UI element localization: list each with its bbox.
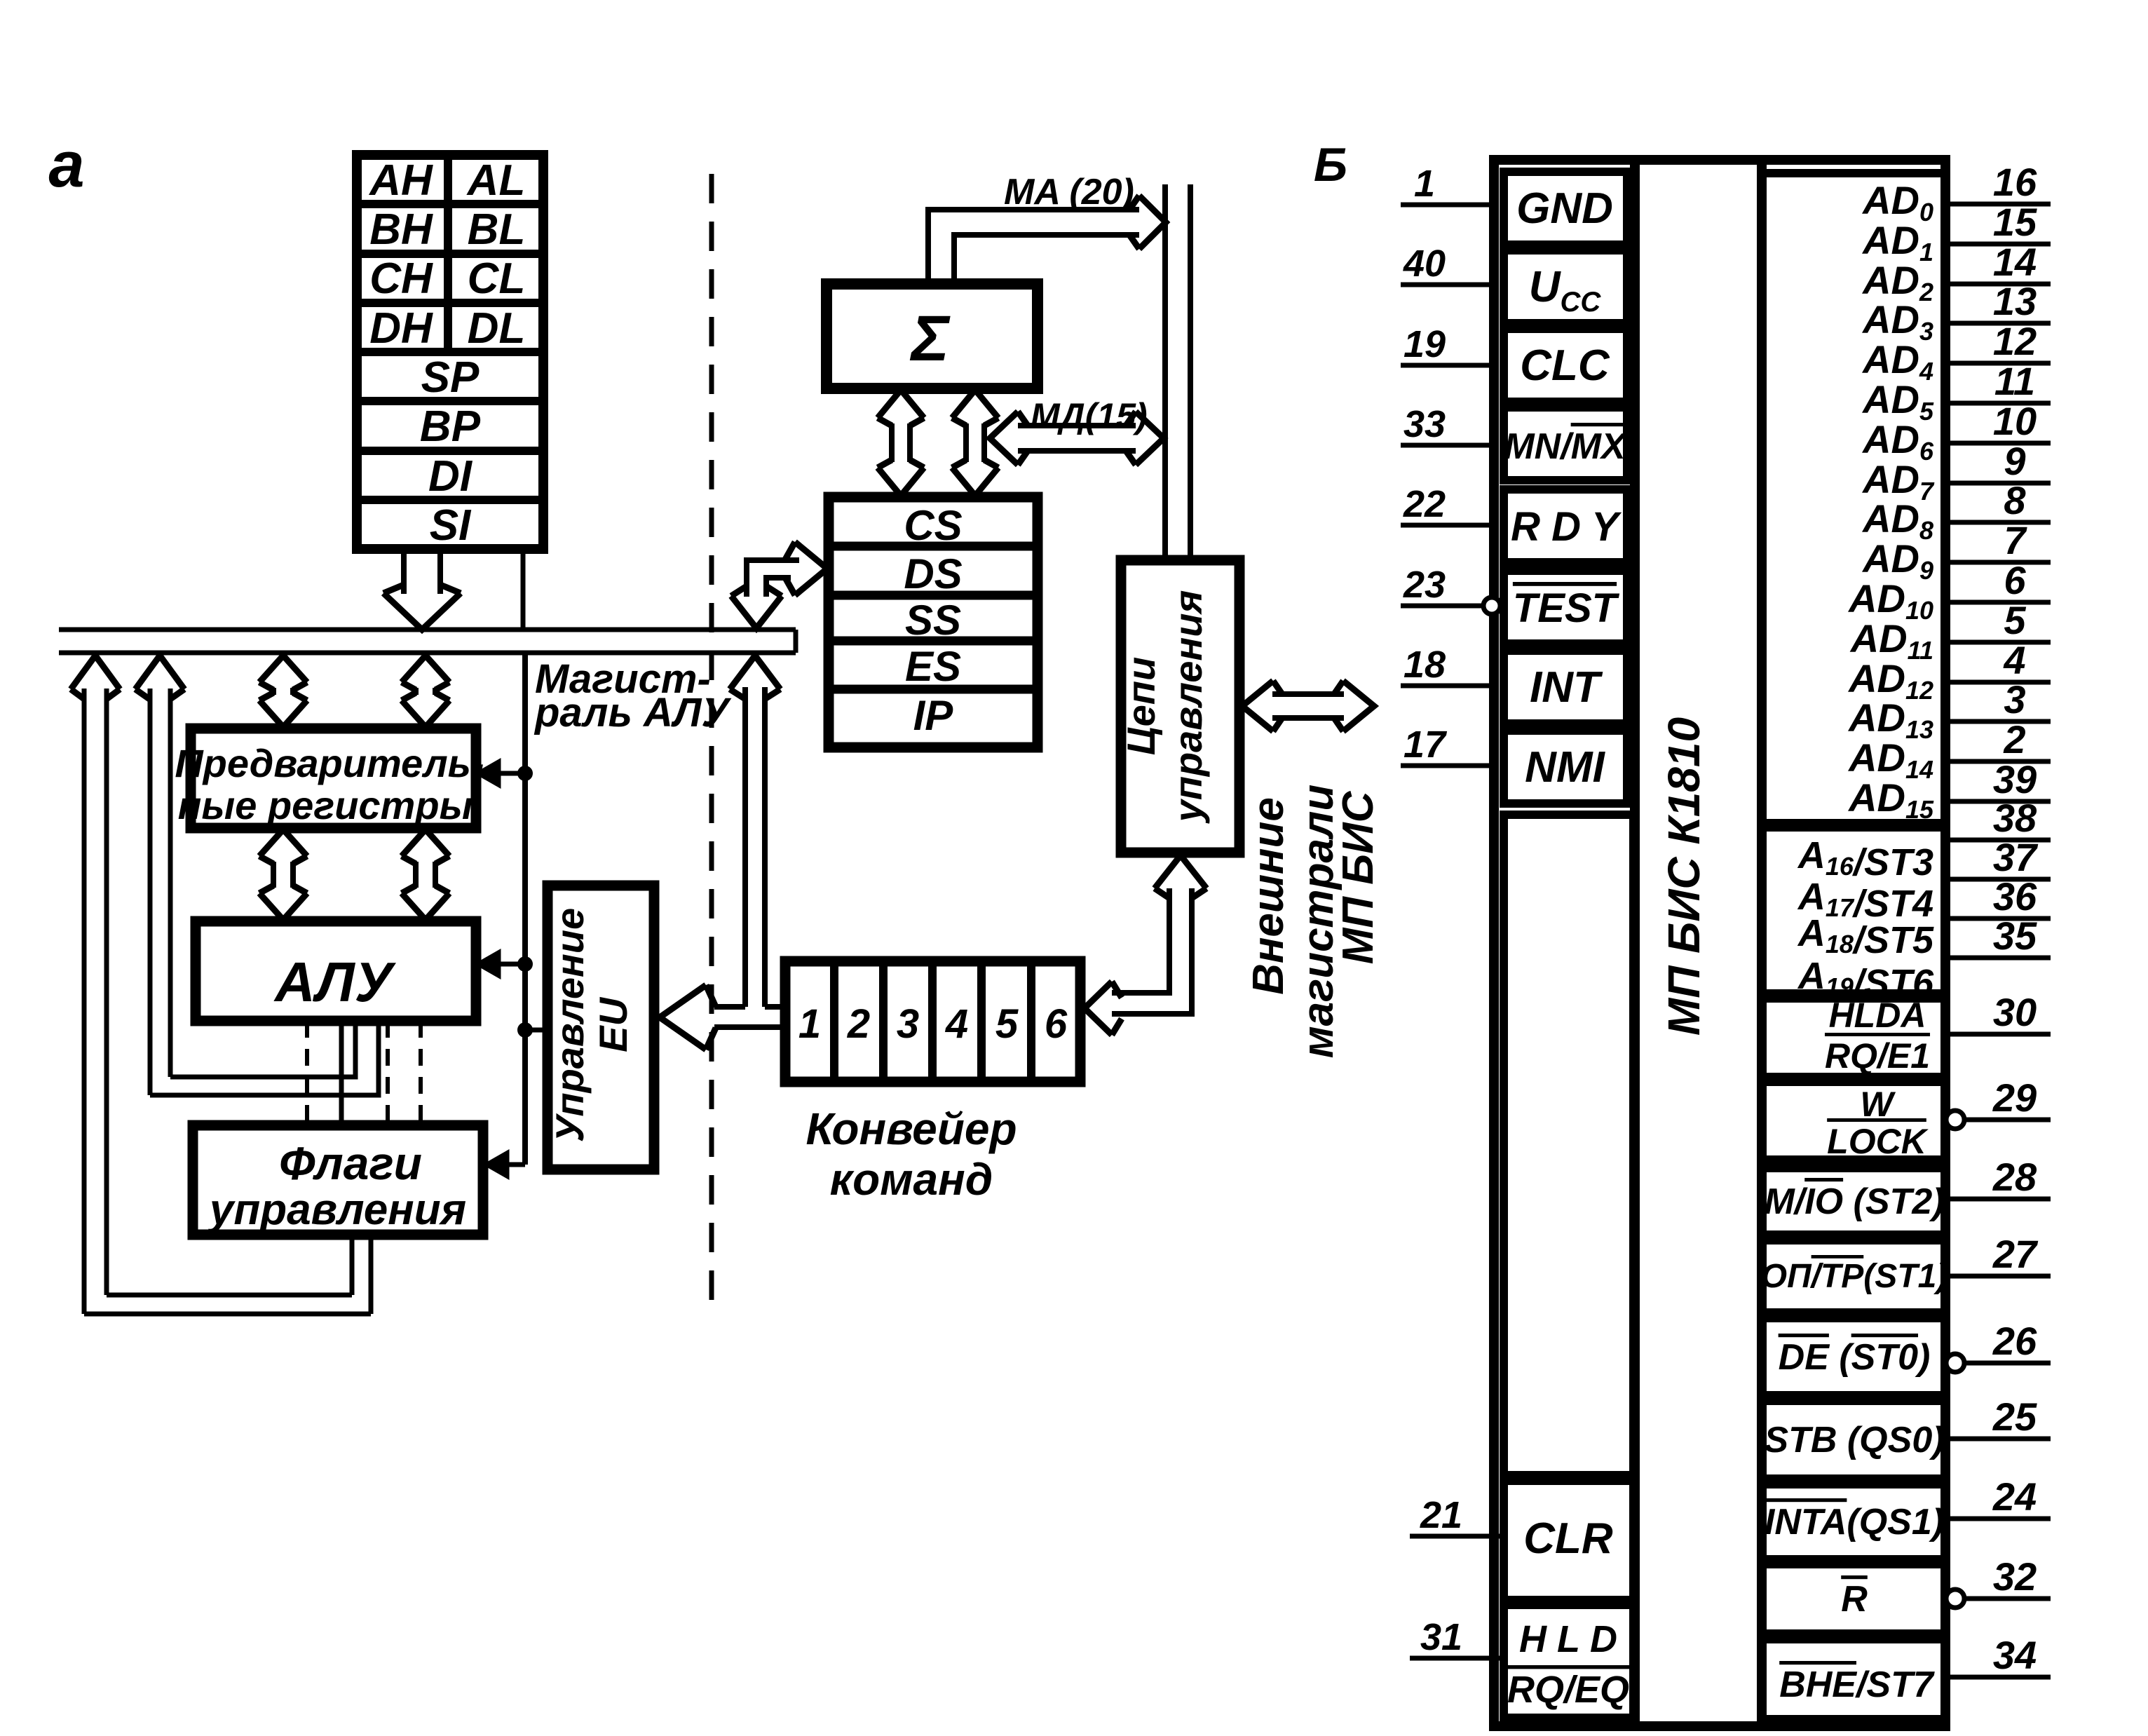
pin 3 line	[1945, 719, 2051, 724]
segment register dividers	[829, 542, 1038, 551]
pin 35 line	[1945, 956, 2051, 961]
pin box MN/MX	[1504, 407, 1627, 480]
wire: dashed flag line 2	[386, 1021, 390, 1125]
svg-text:ОП/ТР(ST1): ОП/ТР(ST1)	[1761, 1258, 1948, 1295]
svg-text:6: 6	[1045, 1001, 1068, 1047]
wire: MD left arrowhead	[990, 412, 1018, 465]
wire: duct queue to EU top line	[714, 1004, 745, 1010]
wire: line to EU control box	[525, 1028, 548, 1033]
wire: bidir arrow sigma to segment regs (left)	[878, 390, 924, 418]
svg-text:37: 37	[1993, 835, 2039, 879]
svg-text:5: 5	[2004, 598, 2026, 642]
svg-text:ные регистры: ные регистры	[178, 783, 473, 827]
pin 28 line	[1945, 1197, 2051, 1202]
svg-text:CL: CL	[468, 255, 526, 303]
svg-text:6: 6	[2004, 558, 2026, 602]
chip inner vertical right	[1757, 160, 1767, 1726]
bus: vertical pair to control circuits	[1162, 184, 1168, 560]
wire: bidir arrow preliminary to ALU (left)	[259, 829, 307, 856]
svg-text:24: 24	[1992, 1474, 2037, 1519]
pin 33 line	[1401, 443, 1494, 448]
register file H/L column divider	[444, 155, 452, 352]
svg-text:1: 1	[798, 1001, 821, 1047]
wire: feedback bottom run lower	[84, 1312, 371, 1317]
pin box A16-A19	[1762, 827, 1945, 998]
svg-text:4: 4	[945, 1001, 968, 1047]
pin 32 inversion bubble	[1946, 1589, 1964, 1608]
pin 11 line	[1945, 401, 2051, 406]
wire: bidir arrow control circuits to external, body	[1272, 691, 1344, 697]
node: junction dot at EU control	[517, 1022, 533, 1038]
svg-text:1: 1	[1414, 163, 1435, 205]
block: chip outline MP BIS K1810	[1494, 160, 1945, 1726]
wire: ALU output elbow lower	[150, 1021, 379, 1095]
wire: dashed divider line	[709, 174, 714, 1310]
pin box (unnamed spare)	[1504, 815, 1633, 1475]
pin 18 line	[1401, 684, 1494, 689]
pin 17 line	[1401, 764, 1494, 768]
wire: duct queue to EU bottom line	[714, 1024, 785, 1030]
wire: right arrowhead external	[1343, 681, 1374, 731]
pin box HLD RQ/EQ	[1504, 1605, 1633, 1718]
svg-text:4: 4	[2003, 638, 2025, 682]
svg-text:39: 39	[1993, 757, 2037, 801]
pin 19 line	[1401, 363, 1494, 368]
block: control circuits	[1121, 560, 1239, 853]
svg-text:M/IO (ST2): M/IO (ST2)	[1764, 1181, 1944, 1222]
pin box R	[1762, 1564, 1945, 1634]
svg-text:16: 16	[1993, 160, 2037, 204]
svg-text:Σ: Σ	[909, 303, 951, 374]
svg-text:AH: AH	[368, 156, 433, 205]
svg-text:28: 28	[1992, 1155, 2037, 1199]
wire: MA duct right/bottom	[954, 235, 1139, 284]
svg-text:3: 3	[2004, 677, 2025, 721]
svg-text:STB (QS0): STB (QS0)	[1764, 1420, 1944, 1460]
wire: bent duct bus to segment registers outer	[747, 560, 799, 597]
svg-text:32: 32	[1993, 1554, 2037, 1599]
svg-text:управления: управления	[1166, 590, 1210, 825]
svg-text:21: 21	[1420, 1494, 1462, 1536]
block: segment registers CS DS SS ES IP	[829, 497, 1038, 747]
pin 5 line	[1945, 640, 2051, 645]
pin 29 inversion bubble	[1946, 1111, 1964, 1129]
pin box GND	[1504, 172, 1627, 245]
svg-text:12: 12	[1993, 319, 2037, 363]
svg-text:SS: SS	[905, 597, 961, 644]
svg-text:SP: SP	[421, 353, 480, 402]
wire: duct queue to control circuits outer	[1112, 888, 1169, 993]
svg-text:9: 9	[2004, 439, 2025, 483]
svg-text:UCC: UCC	[1529, 263, 1602, 318]
wire: up arrowhead into control circuits	[1155, 855, 1206, 888]
bus: ALU highway upper line	[59, 628, 796, 632]
svg-text:35: 35	[1993, 914, 2037, 958]
svg-text:команд: команд	[830, 1154, 993, 1205]
block: ALU	[196, 921, 476, 1021]
pin box DE STO	[1762, 1318, 1945, 1395]
wire: arrow into control flags	[499, 1162, 525, 1167]
svg-text:INTA(QS1): INTA(QS1)	[1765, 1502, 1944, 1542]
pin 36 line	[1945, 916, 2051, 921]
pin 15 line	[1945, 242, 2051, 247]
block: control flags	[193, 1125, 483, 1235]
pin 23 inversion bubble	[1483, 597, 1500, 614]
svg-text:R D Y: R D Y	[1511, 504, 1622, 550]
svg-text:Цепи: Цепи	[1119, 657, 1163, 755]
pin 23 line	[1401, 604, 1482, 609]
pin 7 line	[1945, 560, 2051, 565]
wire: hollow arrowhead into EU control	[660, 985, 706, 1050]
svg-text:DH: DH	[369, 304, 433, 353]
svg-text:RQ/EQ: RQ/EQ	[1507, 1669, 1629, 1711]
svg-text:3: 3	[897, 1001, 919, 1047]
svg-text:CLR: CLR	[1523, 1514, 1613, 1563]
svg-text:NMI: NMI	[1525, 743, 1605, 792]
pin 30 line	[1945, 1032, 2051, 1037]
svg-text:R: R	[1841, 1579, 1868, 1620]
block: instruction queue	[785, 961, 1080, 1082]
wire: hollow down arrowhead at bus top	[731, 596, 782, 628]
wire: bent duct bus to segment registers inner	[766, 578, 791, 597]
chip inner vertical left	[1630, 160, 1640, 1726]
pin 21 line	[1410, 1534, 1504, 1539]
wire: bidir arrow sigma to segment regs (right)	[952, 390, 998, 418]
svg-text:40: 40	[1403, 243, 1446, 285]
pin 26 inversion bubble	[1946, 1354, 1964, 1372]
wire: MA duct left/top	[928, 210, 1139, 284]
svg-text:CLC: CLC	[1520, 341, 1610, 390]
svg-text:RQ/E1: RQ/E1	[1825, 1036, 1930, 1076]
wire: bidir arrow bus to preliminary registers (right)	[402, 656, 449, 682]
pin box INTA QS1	[1762, 1484, 1945, 1559]
pin 6 line	[1945, 600, 2051, 605]
svg-text:DS: DS	[904, 550, 962, 597]
wire: block arrow register file to ALU bus	[401, 549, 407, 594]
svg-text:CH: CH	[369, 255, 433, 303]
svg-text:раль АЛУ: раль АЛУ	[533, 690, 731, 735]
svg-text:INT: INT	[1530, 663, 1603, 712]
wire: EU feed vertical line	[522, 653, 528, 1165]
pin 40 line	[1401, 283, 1494, 287]
svg-text:10: 10	[1993, 399, 2037, 443]
svg-text:33: 33	[1403, 403, 1446, 445]
svg-text:38: 38	[1993, 796, 2037, 840]
svg-text:Предваритель-: Предваритель-	[175, 741, 484, 785]
svg-text:25: 25	[1992, 1395, 2037, 1439]
svg-text:МП БИС К1810: МП БИС К1810	[1659, 717, 1709, 1036]
svg-text:2: 2	[2003, 717, 2025, 761]
svg-text:Флаги: Флаги	[279, 1137, 422, 1189]
pin 32 line	[1965, 1596, 2051, 1601]
pin 29 line	[1965, 1118, 2051, 1123]
svg-text:26: 26	[1992, 1319, 2037, 1363]
wire: arrow into ALU	[491, 962, 525, 967]
pin 8 line	[1945, 520, 2051, 525]
svg-text:15: 15	[1993, 200, 2037, 244]
bus: ALU highway right end cap	[794, 630, 798, 653]
pin box NMI	[1504, 731, 1627, 803]
svg-text:ES: ES	[905, 643, 961, 690]
svg-text:5: 5	[995, 1001, 1019, 1047]
svg-text:8: 8	[2004, 478, 2026, 522]
svg-text:BH: BH	[369, 205, 433, 254]
svg-text:LOCK: LOCK	[1827, 1122, 1929, 1161]
svg-text:CS: CS	[904, 502, 962, 549]
svg-text:TEST: TEST	[1513, 585, 1620, 631]
wire: up arrowhead pair 1 at bus	[71, 656, 120, 689]
pin 22 line	[1401, 523, 1494, 528]
pin 12 line	[1945, 361, 2051, 366]
wire: dashed flag line 1	[305, 1021, 309, 1125]
wire: up arrowhead pair 2 at bus	[135, 656, 184, 689]
pin 10 line	[1945, 441, 2051, 446]
wire: feedback bottom run upper	[107, 1293, 352, 1298]
pin 38 line	[1945, 838, 2051, 843]
svg-text:29: 29	[1992, 1076, 2037, 1120]
node: junction dot at preliminary registers	[517, 766, 533, 781]
pin 4 line	[1945, 680, 2051, 685]
wire: bidir arrow preliminary to ALU (right)	[402, 829, 449, 856]
wire: feedback riser pair 1	[82, 689, 87, 1314]
svg-text:Внешние: Внешние	[1244, 797, 1293, 995]
svg-text:МП БИС: МП БИС	[1334, 790, 1382, 964]
pin 9 line	[1945, 481, 2051, 486]
wire: riser bus to EU duct	[742, 687, 748, 1007]
svg-text:23: 23	[1403, 564, 1446, 606]
pin box M/IO ST2	[1762, 1168, 1945, 1235]
pin box CLC	[1504, 329, 1627, 402]
wire: dashed flag line 3	[419, 1021, 423, 1125]
wire: left arrowhead into queue	[1085, 982, 1112, 1035]
svg-text:Конвейер: Конвейер	[805, 1104, 1017, 1154]
svg-text:A18/ST5: A18/ST5	[1797, 912, 1934, 961]
svg-text:30: 30	[1993, 990, 2037, 1034]
svg-text:22: 22	[1403, 483, 1446, 525]
pin box RDY	[1504, 489, 1627, 562]
wire: arrow into preliminary registers	[491, 771, 525, 776]
svg-text:BHE/ST7: BHE/ST7	[1779, 1664, 1935, 1705]
svg-text:MA (20): MA (20)	[1004, 172, 1134, 212]
wire: MD right arrowhead	[1136, 412, 1164, 465]
svg-text:H L D: H L D	[1519, 1618, 1617, 1660]
register file row dividers	[357, 200, 543, 208]
node: junction dot at ALU	[517, 956, 533, 972]
svg-text:HLDA: HLDA	[1829, 996, 1926, 1035]
block: general register file (AH..SI)	[357, 155, 543, 549]
wire: bidir arrow bus to preliminary registers (left)	[259, 656, 307, 682]
pin 13 line	[1945, 321, 2051, 326]
svg-text:34: 34	[1993, 1633, 2037, 1677]
pin 25 line	[1945, 1437, 2051, 1442]
svg-text:36: 36	[1993, 874, 2037, 918]
pin 34 line	[1945, 1675, 2051, 1680]
pin box Ucc	[1504, 250, 1627, 323]
pin box W LOCK	[1762, 1082, 1945, 1160]
svg-text:IP: IP	[913, 692, 954, 739]
svg-text:2: 2	[847, 1001, 870, 1047]
pin 39 line	[1945, 799, 2051, 804]
svg-text:SI: SI	[430, 501, 472, 550]
svg-text:а: а	[48, 129, 84, 201]
wire: flags output stub	[350, 1235, 355, 1295]
svg-text:GND: GND	[1516, 184, 1613, 233]
pin box CLR	[1504, 1481, 1633, 1600]
svg-text:13: 13	[1993, 279, 2037, 323]
wire: hollow arrowhead into DS	[795, 542, 827, 595]
svg-text:BL: BL	[468, 205, 526, 254]
svg-text:DE (ST0): DE (ST0)	[1779, 1337, 1931, 1378]
pin 24 line	[1945, 1517, 2051, 1521]
svg-text:27: 27	[1992, 1232, 2039, 1276]
svg-text:11: 11	[1994, 359, 2035, 403]
wire: up arrowhead riser at bus	[730, 656, 780, 689]
svg-text:18: 18	[1403, 644, 1446, 686]
svg-text:Б: Б	[1314, 138, 1347, 191]
pin 16 line	[1945, 202, 2051, 207]
svg-text:EU: EU	[591, 997, 635, 1052]
block: preliminary registers	[191, 728, 476, 828]
pin 14 line	[1945, 282, 2051, 287]
svg-text:14: 14	[1993, 240, 2037, 284]
svg-text:BP: BP	[420, 402, 481, 451]
pin 37 line	[1945, 877, 2051, 882]
svg-text:31: 31	[1420, 1616, 1462, 1658]
svg-text:MN/MX: MN/MX	[1504, 426, 1628, 467]
pin 2 line	[1945, 759, 2051, 764]
svg-text:17: 17	[1403, 724, 1448, 766]
pin 26 line	[1965, 1361, 2051, 1366]
svg-text:Управление: Управление	[548, 908, 592, 1142]
block: EU control	[548, 886, 654, 1169]
pin box INT	[1504, 651, 1627, 724]
wire: MA arrowhead	[1139, 196, 1166, 249]
svg-text:МД(15): МД(15)	[1031, 396, 1148, 435]
wire: ALU output elbow upper	[170, 1021, 355, 1077]
svg-text:19: 19	[1403, 323, 1446, 365]
pin 1 line	[1401, 203, 1494, 208]
pin box AD0-AD15	[1762, 173, 1945, 823]
svg-text:АЛУ: АЛУ	[273, 951, 397, 1013]
wire: MD duct lines	[1018, 423, 1136, 428]
queue cell dividers	[830, 961, 838, 1082]
bus: ALU highway lower line	[59, 651, 796, 656]
svg-text:DI: DI	[428, 452, 473, 501]
pin box OP/TR ST1	[1762, 1240, 1945, 1313]
wire: line register file right to bus	[521, 549, 526, 630]
pin 31 line	[1410, 1656, 1504, 1661]
pin box BHE/ST7	[1762, 1639, 1945, 1719]
wire: left arrowhead at control circuits	[1242, 681, 1273, 731]
pin box HLDA RQ/E1	[1762, 994, 1945, 1077]
svg-text:AL: AL	[466, 156, 526, 205]
svg-text:DL: DL	[468, 304, 526, 353]
svg-text:управления: управления	[208, 1186, 466, 1234]
wire: duct queue to control circuits inner	[1112, 888, 1192, 1014]
block: sigma adder	[827, 284, 1038, 388]
svg-text:W: W	[1860, 1085, 1896, 1124]
pin box STB QS0	[1762, 1401, 1945, 1479]
pin 27 line	[1945, 1274, 2051, 1279]
svg-text:7: 7	[2004, 518, 2027, 562]
wire: feedback riser pair 2	[148, 689, 153, 1095]
wire: solid flag line	[339, 1021, 344, 1125]
pin box TEST	[1504, 571, 1627, 644]
